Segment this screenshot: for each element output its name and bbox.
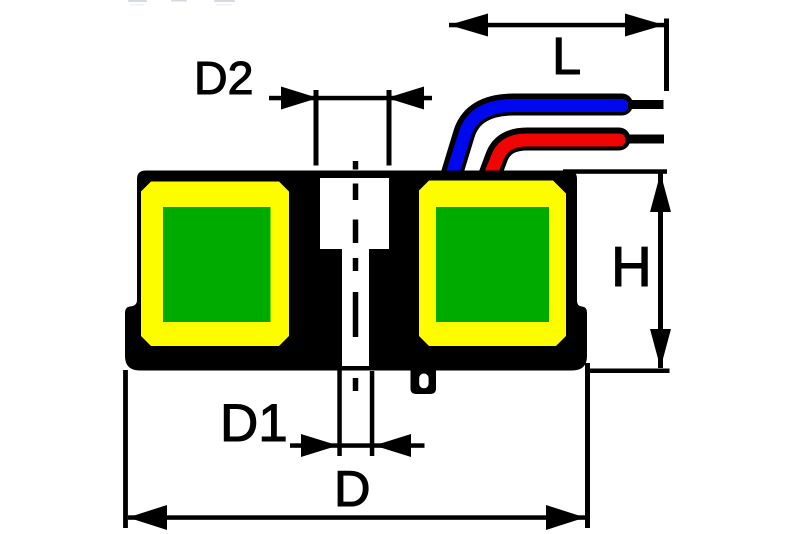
D arrow right (546, 505, 585, 530)
choke body (black core housing) (125, 171, 587, 371)
right core window (green) (436, 207, 549, 322)
wire W1 blue bare lead (628, 100, 664, 109)
H dimension line (658, 173, 663, 368)
svg-text:H: H (611, 235, 652, 298)
left core window (green) (163, 207, 271, 322)
wire W2 red bare lead (626, 135, 664, 144)
D1 extension line left (337, 368, 342, 456)
D2 arrow right (387, 87, 424, 110)
L dimension line (449, 23, 664, 28)
L arrow left (449, 14, 488, 37)
H arrow up (650, 173, 671, 212)
svg-text:L: L (552, 27, 581, 86)
H extension line bottom (585, 369, 670, 374)
dimension H (563, 169, 671, 373)
center post (white bobbin) (320, 178, 389, 366)
D2 dimension line (269, 96, 432, 101)
wire W2 red insulation (488, 139, 619, 180)
wire W1 blue insulation (450, 105, 622, 181)
L arrow right (625, 14, 664, 37)
D extension line left (123, 370, 128, 528)
dimension D1 (220, 368, 425, 457)
dimension D2 (194, 52, 432, 166)
D arrow left (128, 505, 167, 530)
left winding cross-section (yellow) (141, 182, 289, 347)
faint cropped text remnants at top (128, 0, 235, 2)
svg-text:D: D (334, 460, 370, 517)
right winding cross-section (yellow) (419, 181, 566, 347)
H extension line top (563, 169, 667, 174)
D extension line right (585, 363, 590, 528)
D1 dimension line (290, 443, 425, 448)
H arrow down (650, 329, 671, 368)
D2 extension line right (387, 90, 392, 166)
D dimension line (128, 515, 585, 520)
dimension D (123, 363, 590, 530)
D1 extension line right (370, 371, 375, 456)
svg-text:D2: D2 (194, 52, 253, 104)
D1 arrow left (301, 434, 338, 457)
svg-text:D1: D1 (220, 394, 288, 453)
dimension L (449, 14, 669, 92)
D2 arrow left (281, 87, 318, 110)
L extension line (664, 19, 669, 92)
D2 extension line left (314, 90, 319, 166)
D1 arrow right (374, 434, 411, 457)
centerline (dashed axis) (353, 161, 359, 391)
mounting tab with hole (411, 370, 437, 394)
